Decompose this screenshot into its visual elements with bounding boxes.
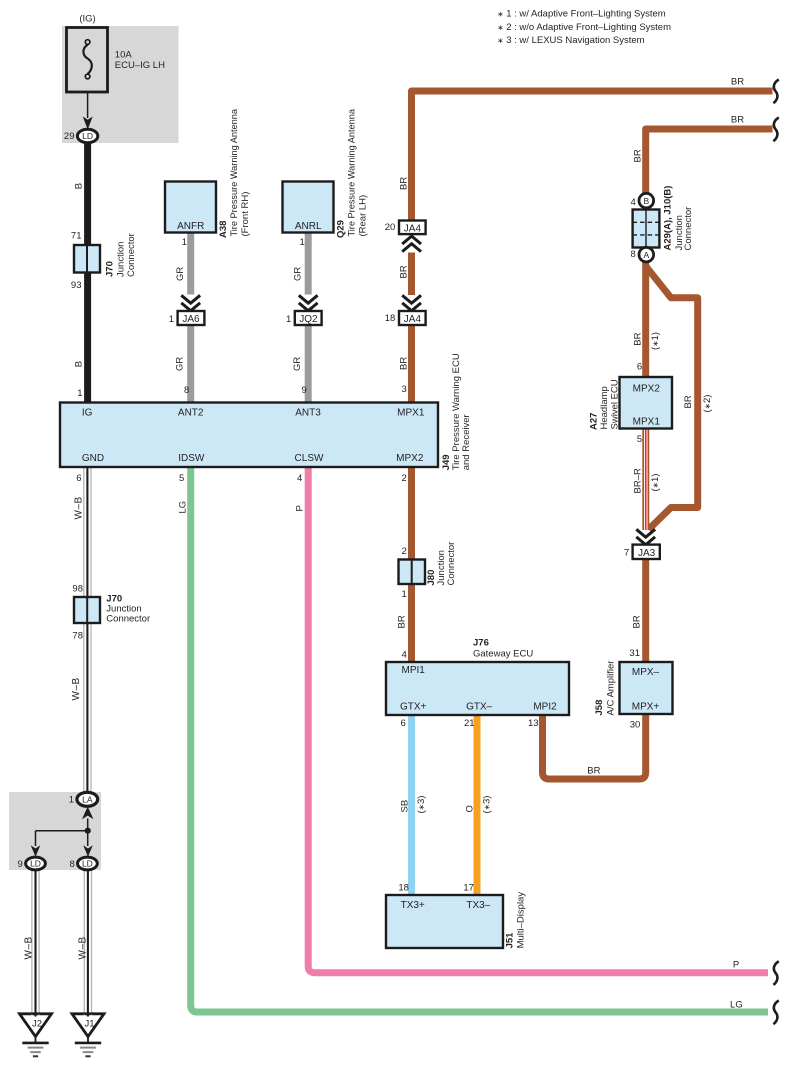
svg-text:1: 1 (286, 314, 291, 325)
svg-text:(∗3): (∗3) (416, 796, 427, 814)
svg-text:(∗3): (∗3) (482, 796, 493, 814)
svg-text:∗ 3 : w/ LEXUS Navigation Syst: ∗ 3 : w/ LEXUS Navigation System (497, 35, 644, 46)
svg-text:JA6: JA6 (182, 314, 200, 325)
svg-text:J2: J2 (32, 1018, 42, 1029)
svg-text:BR: BR (731, 115, 744, 126)
svg-text:6: 6 (76, 473, 81, 484)
svg-text:BR: BR (731, 77, 744, 88)
svg-text:B: B (73, 361, 84, 367)
svg-text:MPX–: MPX– (632, 667, 660, 678)
svg-text:18: 18 (385, 313, 396, 324)
svg-text:O: O (465, 805, 476, 812)
svg-text:A/C Amplifier: A/C Amplifier (606, 661, 617, 716)
svg-text:∗ 2 : w/o Adaptive Front–Light: ∗ 2 : w/o Adaptive Front–Lighting System (497, 22, 671, 33)
svg-text:A: A (643, 250, 649, 260)
svg-text:Connector: Connector (126, 233, 137, 277)
svg-text:MPX1: MPX1 (397, 407, 425, 418)
svg-text:JA3: JA3 (638, 548, 656, 559)
svg-text:71: 71 (71, 230, 82, 241)
svg-text:GR: GR (175, 357, 186, 371)
svg-text:P: P (295, 505, 306, 511)
svg-text:(∗2): (∗2) (702, 395, 713, 413)
svg-text:(IG): (IG) (79, 13, 95, 24)
svg-text:BR: BR (633, 332, 644, 345)
svg-text:GR: GR (175, 267, 186, 281)
svg-text:1: 1 (402, 589, 407, 600)
svg-text:7: 7 (624, 548, 629, 559)
svg-text:Gateway ECU: Gateway ECU (473, 648, 533, 659)
svg-text:BR: BR (399, 177, 410, 190)
svg-text:(Rear LH): (Rear LH) (358, 195, 369, 237)
svg-text:6: 6 (637, 361, 642, 372)
svg-text:IDSW: IDSW (178, 453, 205, 464)
svg-text:JA4: JA4 (404, 223, 422, 234)
svg-text:Swivel ECU: Swivel ECU (609, 379, 620, 429)
svg-text:and Receiver: and Receiver (461, 414, 472, 470)
svg-text:GND: GND (82, 453, 104, 464)
svg-text:31: 31 (629, 648, 640, 659)
svg-text:BR: BR (399, 265, 410, 278)
svg-text:13: 13 (528, 718, 539, 729)
svg-text:8: 8 (70, 859, 75, 870)
svg-text:J76: J76 (473, 637, 489, 648)
svg-text:LD: LD (82, 859, 93, 869)
svg-text:J51: J51 (504, 932, 515, 949)
svg-text:MPI1: MPI1 (402, 665, 426, 676)
svg-text:BR: BR (632, 615, 643, 628)
svg-text:BR: BR (633, 149, 644, 162)
svg-text:18: 18 (398, 883, 409, 894)
svg-text:93: 93 (71, 280, 82, 291)
svg-text:5: 5 (637, 434, 642, 445)
svg-text:P: P (733, 960, 739, 971)
svg-text:J58: J58 (594, 700, 605, 716)
svg-text:MPX2: MPX2 (633, 383, 661, 394)
svg-text:Multi–Display: Multi–Display (516, 892, 527, 949)
svg-text:29: 29 (64, 131, 75, 142)
svg-text:4: 4 (631, 197, 636, 208)
svg-text:78: 78 (72, 631, 83, 642)
svg-text:8: 8 (631, 249, 636, 260)
svg-text:Tire Pressure Warning Antenna: Tire Pressure Warning Antenna (347, 108, 357, 236)
svg-text:2: 2 (402, 546, 407, 557)
svg-text:J1: J1 (84, 1018, 94, 1029)
svg-text:LA: LA (82, 795, 93, 805)
svg-text:8: 8 (184, 385, 189, 396)
svg-text:LD: LD (30, 859, 41, 869)
svg-text:20: 20 (385, 222, 396, 233)
svg-text:Connector: Connector (106, 614, 150, 625)
svg-text:Connector: Connector (446, 542, 457, 586)
svg-text:SB: SB (400, 800, 411, 813)
svg-text:A38: A38 (218, 221, 229, 238)
svg-text:9: 9 (302, 385, 307, 396)
svg-text:JA4: JA4 (404, 314, 422, 325)
svg-text:3: 3 (402, 384, 407, 395)
svg-text:W–B: W–B (71, 677, 82, 700)
svg-text:Q29: Q29 (336, 220, 347, 238)
svg-text:4: 4 (402, 650, 407, 661)
svg-text:MPX2: MPX2 (396, 453, 424, 464)
svg-text:MPI2: MPI2 (533, 701, 557, 712)
svg-text:B: B (73, 183, 84, 189)
svg-text:9: 9 (18, 859, 23, 870)
svg-text:CLSW: CLSW (295, 453, 324, 464)
svg-text:W–B: W–B (74, 496, 85, 519)
svg-text:IG: IG (82, 407, 93, 418)
svg-text:BR: BR (397, 615, 408, 628)
svg-text:ANFR: ANFR (177, 221, 204, 232)
svg-text:1: 1 (300, 237, 305, 248)
svg-text:Junction: Junction (116, 242, 127, 277)
svg-text:6: 6 (401, 718, 406, 729)
svg-text:BR–R: BR–R (633, 468, 644, 493)
svg-text:ANRL: ANRL (295, 221, 322, 232)
svg-text:21: 21 (464, 718, 475, 729)
svg-text:∗ 1 : w/ Adaptive Front–Lighti: ∗ 1 : w/ Adaptive Front–Lighting System (497, 9, 665, 20)
svg-text:30: 30 (630, 720, 641, 731)
svg-text:MPX+: MPX+ (632, 702, 660, 713)
svg-text:(∗1): (∗1) (650, 332, 661, 350)
svg-text:B: B (643, 196, 649, 206)
svg-text:98: 98 (72, 584, 83, 595)
svg-text:2: 2 (402, 473, 407, 484)
svg-text:JQ2: JQ2 (299, 314, 318, 325)
svg-text:LG: LG (177, 501, 188, 514)
svg-text:MPX1: MPX1 (633, 417, 661, 428)
svg-text:BR: BR (683, 395, 694, 408)
svg-text:J70: J70 (105, 261, 116, 277)
svg-text:GR: GR (292, 267, 303, 281)
svg-text:BR: BR (587, 766, 600, 777)
svg-text:GTX–: GTX– (466, 701, 493, 712)
svg-text:Connector: Connector (683, 207, 694, 251)
svg-text:(∗1): (∗1) (650, 474, 661, 492)
svg-text:17: 17 (463, 883, 474, 894)
svg-text:1: 1 (182, 237, 187, 248)
svg-text:1: 1 (77, 388, 82, 399)
svg-text:A27: A27 (588, 413, 599, 430)
svg-text:TX3+: TX3+ (401, 900, 425, 911)
svg-text:A29(A), J10(B): A29(A), J10(B) (663, 186, 674, 251)
svg-text:GTX+: GTX+ (400, 701, 427, 712)
svg-text:GR: GR (292, 357, 303, 371)
svg-text:1: 1 (169, 314, 174, 325)
svg-text:ECU–IG LH: ECU–IG LH (115, 60, 165, 71)
svg-text:LD: LD (82, 131, 93, 141)
svg-text:ANT2: ANT2 (178, 407, 204, 418)
svg-text:TX3–: TX3– (466, 900, 490, 911)
svg-text:W–B: W–B (78, 936, 89, 959)
svg-text:(Front RH): (Front RH) (240, 192, 251, 237)
svg-text:4: 4 (297, 473, 302, 484)
svg-text:Tire Pressure Warning Antenna: Tire Pressure Warning Antenna (229, 108, 239, 236)
svg-text:W–B: W–B (24, 936, 35, 959)
svg-text:LG: LG (730, 1000, 743, 1011)
svg-text:ANT3: ANT3 (295, 407, 321, 418)
svg-text:10A: 10A (115, 50, 133, 61)
svg-text:BR: BR (399, 357, 410, 370)
svg-text:1: 1 (69, 795, 74, 806)
svg-text:5: 5 (179, 473, 184, 484)
